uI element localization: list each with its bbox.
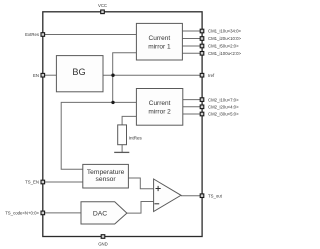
pin CM1_i50u — [200, 44, 239, 49]
svg-text:CM1_i20u<10:0>: CM1_i20u<10:0> — [208, 36, 241, 41]
pin CM2_i30u — [200, 112, 239, 117]
svg-text:CM1_i100u<2:0>: CM1_i100u<2:0> — [208, 51, 241, 56]
svg-text:CM2_i20u<4:0>: CM2_i20u<4:0> — [208, 105, 239, 110]
wire resistor top to CM2 — [122, 116, 136, 125]
junction dot at CM2 branch wire — [111, 101, 114, 104]
svg-text:mirror 1: mirror 1 — [148, 43, 171, 50]
chip boundary — [43, 12, 202, 237]
block BG U1 — [56, 56, 103, 92]
pin CM2_i20u — [200, 105, 239, 110]
svg-text:Temperature: Temperature — [87, 169, 125, 176]
wire Iref bus vertical — [113, 53, 137, 103]
wire CM1 output 2 — [182, 38, 202, 40]
svg-text:CM1_i10u<34:0>: CM1_i10u<34:0> — [208, 29, 241, 34]
svg-text:VCC: VCC — [98, 3, 107, 8]
pin CM1_i10u — [200, 29, 241, 34]
wire EN to BG — [43, 74, 57, 76]
wire ExtRes to Current mirror 1 — [43, 34, 137, 36]
svg-text:TS_out: TS_out — [208, 193, 223, 198]
svg-text:EN: EN — [33, 73, 39, 78]
pin TS_code — [5, 211, 44, 216]
block Current mirror 2 — [136, 89, 182, 126]
wire CM1 output 4 — [182, 52, 202, 54]
block Temperature sensor — [83, 164, 129, 188]
svg-text:IntRes: IntRes — [129, 136, 143, 141]
op-amp comparator — [154, 179, 181, 212]
svg-text:Current: Current — [149, 100, 171, 107]
wire CM2 output 1 — [183, 99, 202, 101]
pin EN — [33, 73, 45, 78]
svg-text:DAC: DAC — [93, 210, 107, 217]
svg-text:BG: BG — [72, 67, 85, 77]
svg-text:mirror 2: mirror 2 — [148, 108, 171, 115]
ground — [114, 151, 129, 153]
svg-text:CM1_i50u<2:0>: CM1_i50u<2:0> — [208, 44, 239, 49]
resistor IntRes — [118, 125, 143, 145]
svg-text:CM2_i30u<5:0>: CM2_i30u<5:0> — [208, 112, 239, 117]
svg-text:ExtRes: ExtRes — [25, 32, 39, 37]
pin CM1_i100u — [200, 51, 241, 56]
wire CM1 output 3 — [182, 45, 202, 47]
wire resistor bottom to ground — [121, 145, 123, 153]
pin GND — [98, 235, 108, 247]
pin ExtRes — [25, 32, 44, 37]
svg-text:CM2_i10u<7:0>: CM2_i10u<7:0> — [208, 97, 239, 102]
wire CM2 output 2 — [183, 106, 202, 108]
svg-text:TS_EN: TS_EN — [25, 180, 39, 185]
wire CM1 output 1 — [182, 30, 202, 32]
wire temperature sensor output to comparator + input — [128, 178, 153, 189]
pin Iref — [200, 73, 215, 78]
wire CM2 output 3 — [183, 113, 202, 115]
wire BG output to Iref pin — [103, 74, 202, 76]
pin TS_EN — [25, 180, 44, 185]
pin CM2_i10u — [200, 97, 239, 102]
wire TS_EN to temperature sensor — [43, 181, 83, 183]
wire comparator output to TS_out pin — [181, 195, 202, 197]
svg-text:Iref: Iref — [208, 73, 215, 78]
svg-text:sensor: sensor — [96, 176, 117, 183]
pin TS_out — [200, 193, 222, 198]
pin CM1_i20u — [200, 36, 241, 41]
pin VCC — [98, 3, 107, 13]
svg-text:TS_code<N+0:0>: TS_code<N+0:0> — [5, 211, 39, 216]
block DAC — [81, 202, 127, 224]
svg-text:Current: Current — [149, 35, 171, 42]
junction dot at Iref wire — [111, 74, 114, 77]
wire Iref branch to Current mirror 2 and temperature sensor — [61, 102, 136, 169]
block Current mirror 1 — [136, 23, 182, 60]
svg-text:GND: GND — [98, 241, 108, 246]
wire TS_code to DAC — [43, 212, 81, 214]
wire DAC output to comparator - input — [127, 202, 154, 214]
